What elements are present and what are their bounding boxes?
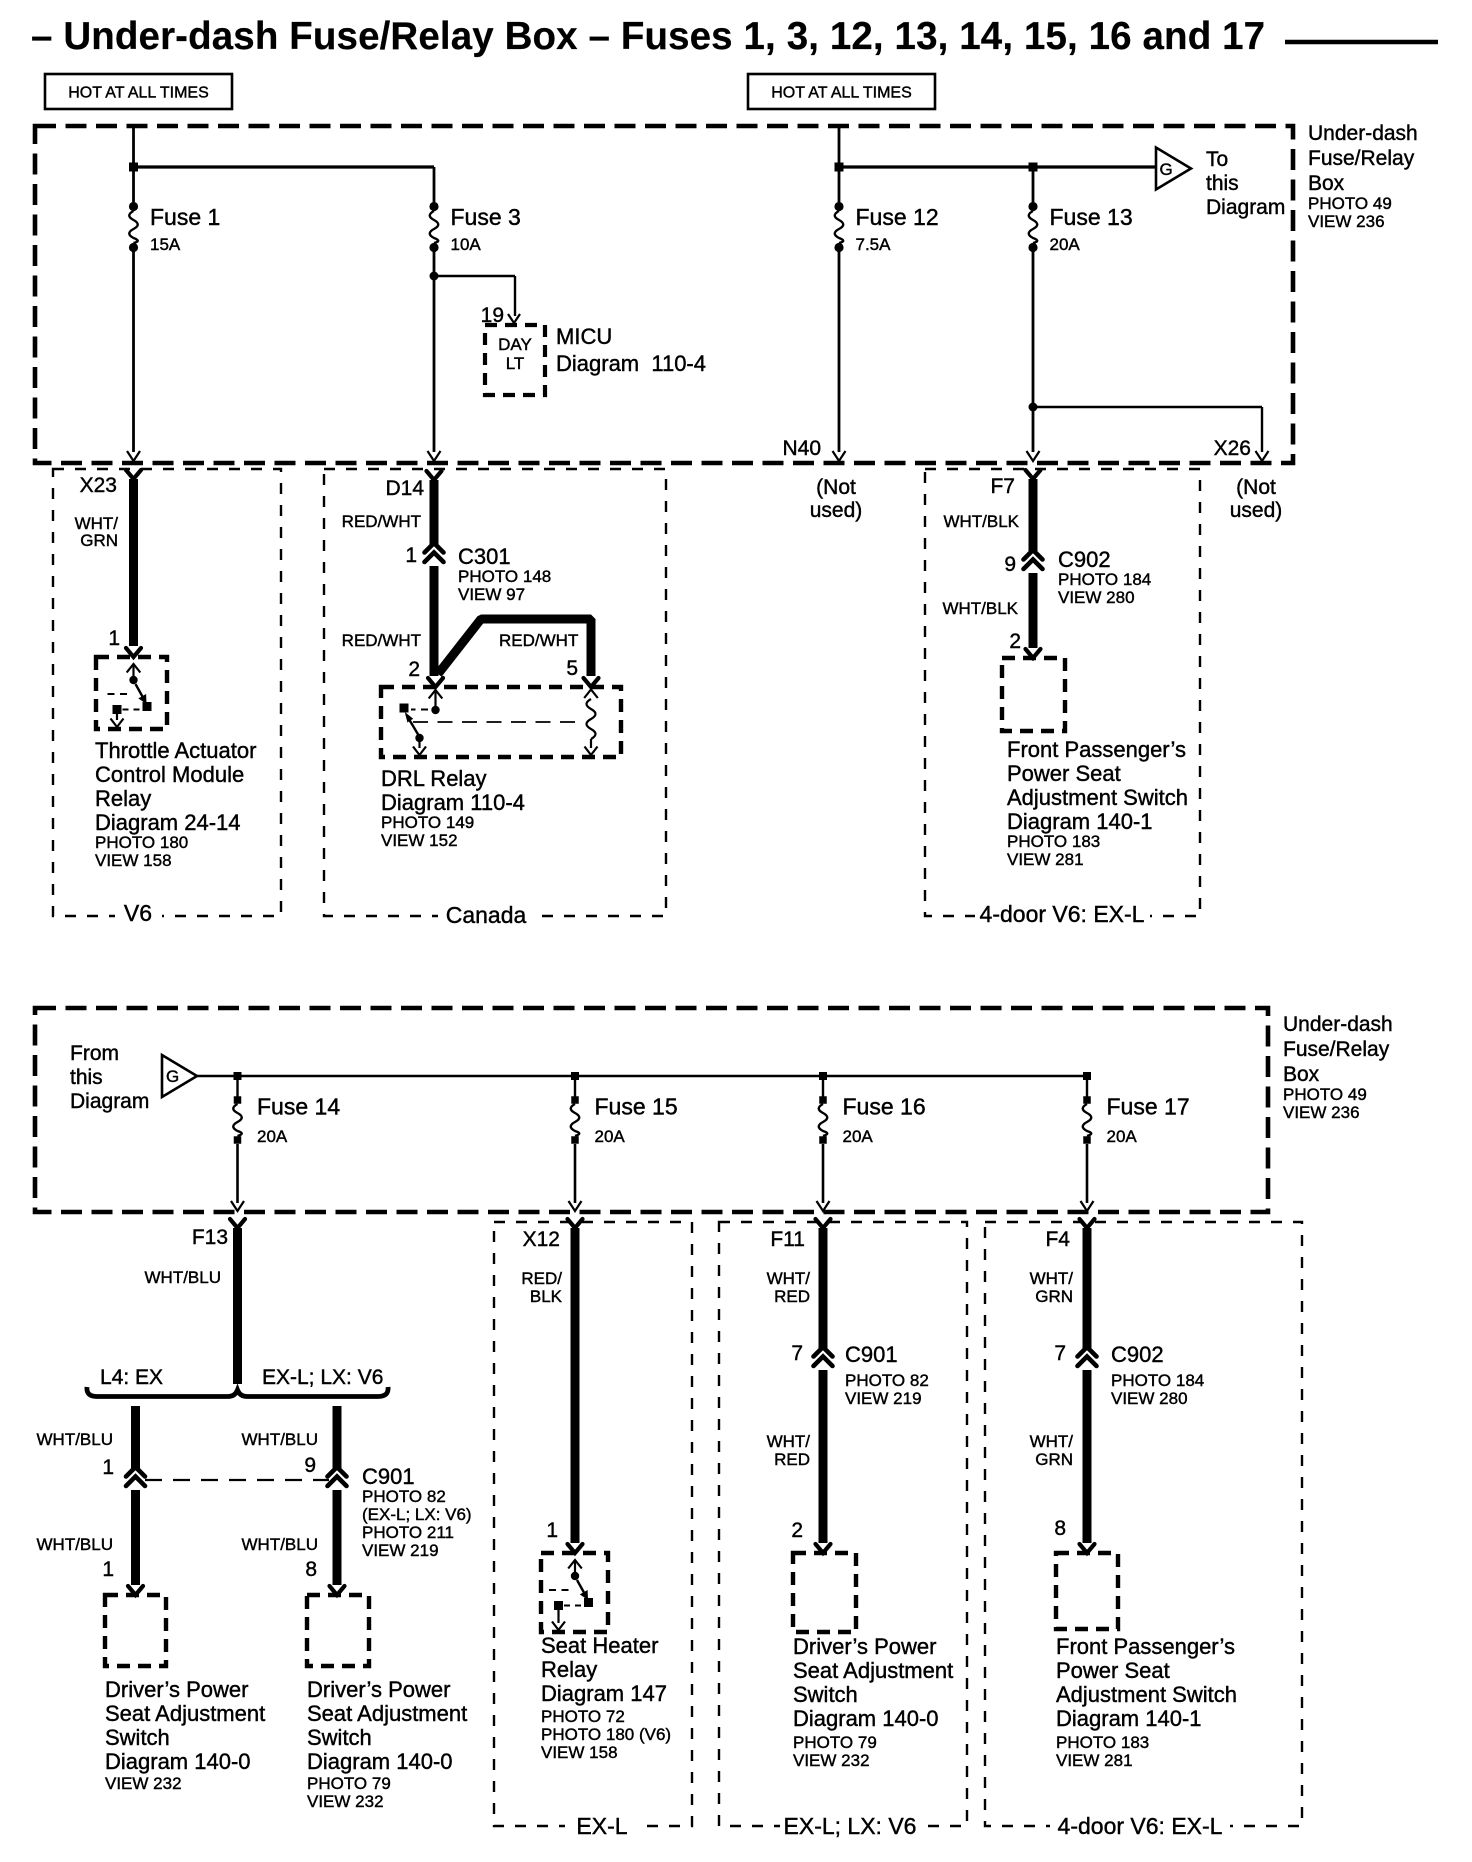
svg-text:1: 1 xyxy=(405,544,417,567)
svg-text:GRN: GRN xyxy=(80,531,118,550)
pin 5 connector at DRL relay xyxy=(584,678,599,687)
splice bus bar with variant split xyxy=(87,1387,388,1397)
G arrow from this diagram (bottom) xyxy=(162,1055,197,1097)
svg-text:Under-dash: Under-dash xyxy=(1283,1013,1393,1036)
wire WHT/BLU from F13 to splice (thick) xyxy=(233,1228,242,1384)
svg-text:(Not: (Not xyxy=(1236,476,1276,499)
connector C901 right inline chevrons xyxy=(328,1467,347,1477)
wire WHT/RED from C901 to driver switch pin 2 (thick) xyxy=(819,1370,828,1543)
variant label EX-L; LX: V6 xyxy=(780,1818,920,1834)
fuse F17 (Fuse 17) xyxy=(1083,1096,1091,1104)
wire: Fuse 17 output to connector xyxy=(1086,1144,1089,1203)
svg-text:PHOTO 149: PHOTO 149 xyxy=(381,813,474,832)
svg-text:PHOTO 148: PHOTO 148 xyxy=(458,567,551,586)
junction at Fuse 12 feed xyxy=(835,163,844,172)
wire: Fuse 16 output to connector xyxy=(822,1144,825,1203)
wire: Fuse 14 output to connector xyxy=(236,1144,239,1203)
svg-text:From: From xyxy=(70,1042,119,1065)
wire WHT/GRN from C902 to switch pin 8 (thick) xyxy=(1083,1370,1092,1543)
wire RED/WHT from C301 to DRL relay pin 2 (thick) xyxy=(430,566,439,676)
svg-text:LT: LT xyxy=(506,354,525,373)
svg-text:20A: 20A xyxy=(1050,235,1081,254)
variant label 4-door V6: EX-L (bottom) xyxy=(1050,1818,1230,1834)
MICU DAY LT dashed box xyxy=(485,325,545,395)
DRL relay contact symbol xyxy=(429,690,443,699)
svg-text:Diagram: Diagram xyxy=(1206,196,1285,219)
svg-text:WHT/: WHT/ xyxy=(767,1432,811,1451)
svg-text:10A: 10A xyxy=(451,235,482,254)
svg-text:2: 2 xyxy=(408,658,420,681)
svg-text:F11: F11 xyxy=(770,1228,805,1251)
pin 1 connector at throttle relay xyxy=(126,648,141,657)
driver's power seat adjustment switch box (right) xyxy=(307,1595,369,1666)
svg-text:WHT/BLU: WHT/BLU xyxy=(37,1430,114,1449)
wire: Fuse 3 to connector D14 xyxy=(433,252,436,452)
svg-text:Driver’s Power: Driver’s Power xyxy=(105,1677,248,1702)
svg-text:Fuse 12: Fuse 12 xyxy=(856,204,939,230)
svg-text:EX-L; LX: V6: EX-L; LX: V6 xyxy=(784,1813,917,1839)
svg-text:Driver’s Power: Driver’s Power xyxy=(793,1634,936,1659)
svg-text:(Not: (Not xyxy=(816,476,856,499)
svg-text:Seat Heater: Seat Heater xyxy=(541,1633,658,1658)
svg-text:1: 1 xyxy=(108,627,120,650)
svg-text:L4: EX: L4: EX xyxy=(100,1366,163,1389)
svg-text:VIEW 219: VIEW 219 xyxy=(845,1389,922,1408)
fuse F12 (Fuse 12) xyxy=(834,202,843,211)
svg-text:Diagram 140-1: Diagram 140-1 xyxy=(1056,1706,1202,1731)
connector C901 left inline chevrons xyxy=(126,1467,145,1477)
svg-text:7: 7 xyxy=(791,1342,803,1365)
svg-text:Power Seat: Power Seat xyxy=(1007,761,1121,786)
svg-text:1: 1 xyxy=(102,1558,114,1581)
svg-text:F13: F13 xyxy=(192,1226,228,1249)
svg-text:5: 5 xyxy=(566,657,578,680)
svg-text:Adjustment Switch: Adjustment Switch xyxy=(1056,1682,1237,1707)
title rule line xyxy=(1285,40,1438,45)
svg-text:DAY: DAY xyxy=(498,335,532,354)
wire: battery feed to Fuse 1 xyxy=(132,128,135,202)
variant box V6 (dashed) xyxy=(53,469,281,916)
svg-text:C301: C301 xyxy=(458,544,511,569)
svg-text:PHOTO 82: PHOTO 82 xyxy=(845,1371,929,1390)
svg-text:VIEW 281: VIEW 281 xyxy=(1056,1751,1133,1770)
DRL relay dashed box xyxy=(381,687,621,757)
variant box Canada (dashed) xyxy=(324,469,666,916)
svg-text:MICU: MICU xyxy=(556,324,612,349)
svg-text:15A: 15A xyxy=(150,235,181,254)
wire WHT/BLK from F7 to C902 (thick) xyxy=(1029,479,1038,551)
svg-text:Diagram 140-1: Diagram 140-1 xyxy=(1007,809,1153,834)
junction at Fuse 16 feed xyxy=(819,1072,827,1080)
svg-text:VIEW 232: VIEW 232 xyxy=(105,1774,182,1793)
front passenger power seat adjustment switch dashed box xyxy=(1002,658,1065,731)
seat heater relay dashed box xyxy=(541,1553,608,1632)
wire: branch to MICU daytime lights xyxy=(434,275,515,277)
under-dash fuse/relay box (top) dashed enclosure xyxy=(35,126,1293,463)
connector F11 (female half) xyxy=(816,1219,831,1228)
svg-text:RED/WHT: RED/WHT xyxy=(499,631,578,650)
svg-text:VIEW 97: VIEW 97 xyxy=(458,585,525,604)
svg-text:PHOTO 180 (V6): PHOTO 180 (V6) xyxy=(541,1725,671,1744)
svg-text:WHT/BLU: WHT/BLU xyxy=(242,1430,319,1449)
svg-text:Under-dash: Under-dash xyxy=(1308,122,1418,145)
svg-text:F7: F7 xyxy=(990,475,1015,498)
svg-text:PHOTO 79: PHOTO 79 xyxy=(793,1733,877,1752)
svg-text:Diagram 110-4: Diagram 110-4 xyxy=(381,790,525,815)
variant box EX-L; LX: V6 (dashed) xyxy=(719,1222,967,1826)
wire RED/BLK from X12 to seat heater relay (thick) xyxy=(571,1228,580,1543)
svg-text:WHT/BLK: WHT/BLK xyxy=(942,599,1018,618)
fuse F13A (Fuse 13) xyxy=(1028,202,1037,211)
svg-text:X12: X12 xyxy=(523,1228,560,1251)
svg-text:WHT/BLU: WHT/BLU xyxy=(37,1535,114,1554)
svg-text:VIEW 232: VIEW 232 xyxy=(307,1792,384,1811)
svg-text:WHT/: WHT/ xyxy=(1030,1432,1074,1451)
svg-text:20A: 20A xyxy=(843,1127,874,1146)
connector F4 (female half) xyxy=(1080,1219,1095,1228)
svg-text:PHOTO 79: PHOTO 79 xyxy=(307,1774,391,1793)
svg-text:DRL Relay: DRL Relay xyxy=(381,766,487,791)
svg-text:Diagram 24-14: Diagram 24-14 xyxy=(95,810,241,835)
connector C901 link (dashed) xyxy=(145,1479,329,1481)
pin 2 connector at DRL relay xyxy=(428,678,443,687)
wire: branch to X26 xyxy=(1033,406,1262,408)
svg-text:2: 2 xyxy=(1009,630,1021,653)
junction at Fuse 14 feed xyxy=(234,1072,242,1080)
svg-text:7.5A: 7.5A xyxy=(856,235,892,254)
pin 1 connector at driver switch left xyxy=(128,1586,143,1595)
svg-text:Box: Box xyxy=(1283,1063,1320,1086)
svg-text:Seat Adjustment: Seat Adjustment xyxy=(105,1701,265,1726)
fuse F14 (Fuse 14) xyxy=(234,1096,242,1104)
svg-text:HOT AT ALL TIMES: HOT AT ALL TIMES xyxy=(68,85,209,102)
svg-text:C902: C902 xyxy=(1111,1342,1164,1367)
svg-text:Seat Adjustment: Seat Adjustment xyxy=(793,1658,953,1683)
svg-text:8: 8 xyxy=(1054,1517,1066,1540)
svg-text:Switch: Switch xyxy=(307,1725,372,1750)
svg-text:Switch: Switch xyxy=(793,1682,858,1707)
wire: bus from Fuse 12 to G arrow xyxy=(839,165,1156,168)
junction at Fuse 13 feed xyxy=(1029,163,1038,172)
svg-text:Box: Box xyxy=(1308,172,1345,195)
connector C902 inline chevrons xyxy=(1024,550,1043,560)
svg-text:PHOTO 184: PHOTO 184 xyxy=(1058,570,1151,589)
pin 2 connector at driver switch xyxy=(816,1544,831,1553)
svg-text:PHOTO 180: PHOTO 180 xyxy=(95,833,188,852)
DRL relay mechanical link (dashed) xyxy=(413,721,576,723)
wire WHT/BLU left to driver switch pin 1 (thick) xyxy=(131,1490,140,1585)
junction at Fuse 17 feed xyxy=(1083,1072,1091,1080)
svg-text:Fuse/Relay: Fuse/Relay xyxy=(1308,147,1415,170)
connector X23 (female half) xyxy=(126,470,141,479)
svg-text:Throttle Actuator: Throttle Actuator xyxy=(95,738,256,763)
wire WHT/RED from F11 to C901 pin 7 (thick) xyxy=(819,1228,828,1348)
wire RED/WHT from D14 to C301 (thick) xyxy=(430,480,439,545)
wire RED/WHT branch to DRL relay pin 5 (thick) xyxy=(438,619,591,676)
svg-text:Front Passenger’s: Front Passenger’s xyxy=(1056,1634,1235,1659)
svg-text:WHT/BLU: WHT/BLU xyxy=(242,1535,319,1554)
pin 8 connector at front passenger switch xyxy=(1080,1544,1095,1553)
svg-text:used): used) xyxy=(810,499,863,522)
svg-text:X23: X23 xyxy=(80,474,117,497)
svg-text:Fuse 15: Fuse 15 xyxy=(595,1094,678,1120)
svg-text:WHT/BLU: WHT/BLU xyxy=(145,1268,222,1287)
svg-text:Diagram: Diagram xyxy=(70,1090,149,1113)
svg-text:Seat Adjustment: Seat Adjustment xyxy=(307,1701,467,1726)
svg-text:9: 9 xyxy=(1004,553,1016,576)
connector C902 pin 7 inline chevrons xyxy=(1078,1347,1097,1357)
svg-text:G: G xyxy=(1160,160,1173,179)
svg-text:Fuse 1: Fuse 1 xyxy=(150,204,220,230)
wire: battery feed to Fuse 12 xyxy=(838,128,841,202)
svg-text:RED: RED xyxy=(774,1287,810,1306)
svg-text:Fuse 13: Fuse 13 xyxy=(1050,204,1133,230)
svg-text:20A: 20A xyxy=(595,1127,626,1146)
svg-text:VIEW 236: VIEW 236 xyxy=(1283,1103,1360,1122)
throttle actuator control module relay dashed box xyxy=(96,657,167,729)
wire WHT/BLU right branch to C901 pin 9 (thick) xyxy=(333,1406,342,1468)
wire: bus from Fuse 1 junction to Fuse 3 xyxy=(134,165,435,168)
variant box 4-door V6: EX-L (dashed, top section) xyxy=(925,469,1200,916)
svg-text:VIEW 158: VIEW 158 xyxy=(95,851,172,870)
under-dash fuse/relay box (bottom) dashed enclosure xyxy=(35,1008,1268,1212)
svg-text:PHOTO 184: PHOTO 184 xyxy=(1111,1371,1204,1390)
svg-text:WHT/BLK: WHT/BLK xyxy=(943,512,1019,531)
svg-text:Control Module: Control Module xyxy=(95,762,244,787)
svg-text:RED: RED xyxy=(774,1450,810,1469)
svg-text:G: G xyxy=(166,1067,179,1086)
wire: bus from G arrow across fuses 14-17 xyxy=(197,1075,1087,1077)
connector F13 (female half) xyxy=(230,1219,245,1228)
variant label EX-L xyxy=(565,1818,640,1834)
svg-text:Fuse 16: Fuse 16 xyxy=(843,1094,926,1120)
svg-text:RED/WHT: RED/WHT xyxy=(342,512,421,531)
svg-text:D14: D14 xyxy=(385,477,424,500)
relay contact symbol (seat heater relay) xyxy=(574,1561,576,1576)
svg-text:V6: V6 xyxy=(124,900,152,926)
svg-text:2: 2 xyxy=(791,1519,803,1542)
svg-text:9: 9 xyxy=(304,1454,316,1477)
svg-text:1: 1 xyxy=(546,1519,558,1542)
svg-text:Front Passenger’s: Front Passenger’s xyxy=(1007,737,1186,762)
driver's power seat adjustment switch box (F11) xyxy=(793,1553,856,1632)
label HOT AT ALL TIMES (left) xyxy=(45,74,232,109)
svg-text:PHOTO 49: PHOTO 49 xyxy=(1308,194,1392,213)
svg-text:WHT/: WHT/ xyxy=(767,1269,811,1288)
svg-text:20A: 20A xyxy=(257,1127,288,1146)
svg-text:VIEW 232: VIEW 232 xyxy=(793,1751,870,1770)
variant box 4-door V6: EX-L (dashed, bottom section) xyxy=(985,1222,1302,1826)
variant label V6 xyxy=(115,906,162,922)
svg-text:Relay: Relay xyxy=(95,786,151,811)
svg-text:PHOTO 211: PHOTO 211 xyxy=(362,1523,454,1542)
svg-text:C901: C901 xyxy=(362,1464,415,1489)
svg-text:Fuse/Relay: Fuse/Relay xyxy=(1283,1038,1390,1061)
svg-text:EX-L; LX: V6: EX-L; LX: V6 xyxy=(262,1366,383,1389)
svg-text:Adjustment Switch: Adjustment Switch xyxy=(1007,785,1188,810)
svg-text:To: To xyxy=(1206,148,1228,171)
variant label 4-door V6: EX-L (top section) xyxy=(975,906,1150,922)
front passenger power seat adjustment switch box (F4) xyxy=(1056,1553,1118,1629)
svg-text:F4: F4 xyxy=(1045,1228,1070,1251)
svg-text:RED/: RED/ xyxy=(521,1269,562,1288)
svg-text:EX-L: EX-L xyxy=(576,1813,627,1839)
svg-text:VIEW 236: VIEW 236 xyxy=(1308,212,1385,231)
G arrow to this diagram (top) xyxy=(1156,148,1191,190)
svg-text:used): used) xyxy=(1230,499,1283,522)
label HOT AT ALL TIMES (right) xyxy=(748,74,935,109)
fuse F1 (Fuse 1) xyxy=(129,202,138,211)
svg-text:HOT AT ALL TIMES: HOT AT ALL TIMES xyxy=(771,85,912,102)
svg-text:7: 7 xyxy=(1054,1342,1066,1365)
fuse F3 (Fuse 3) xyxy=(429,202,438,211)
svg-text:WHT/: WHT/ xyxy=(1030,1269,1074,1288)
wire WHT/GRN from X23 to relay pin 1 (thick) xyxy=(129,479,138,646)
svg-text:VIEW 281: VIEW 281 xyxy=(1007,850,1084,869)
junction: Fuse 13 to X26 branch xyxy=(1029,403,1038,412)
wire WHT/BLU right to driver switch pin 8 (thick) xyxy=(333,1490,342,1585)
junction: Fuse 3 output to MICU branch xyxy=(430,272,439,281)
fuse F16 (Fuse 16) xyxy=(819,1096,827,1104)
svg-text:Canada: Canada xyxy=(446,902,527,928)
svg-text:PHOTO 72: PHOTO 72 xyxy=(541,1707,625,1726)
connector D14 (female half) xyxy=(427,471,442,480)
connector C301 inline chevrons xyxy=(425,543,444,553)
svg-text:1: 1 xyxy=(102,1456,114,1479)
svg-text:VIEW 280: VIEW 280 xyxy=(1111,1389,1188,1408)
svg-text:VIEW 280: VIEW 280 xyxy=(1058,588,1135,607)
driver's power seat adjustment switch box (left) xyxy=(105,1595,166,1666)
svg-text:RED/WHT: RED/WHT xyxy=(342,631,421,650)
svg-text:VIEW 219: VIEW 219 xyxy=(362,1541,439,1560)
svg-text:Diagram 147: Diagram 147 xyxy=(541,1681,667,1706)
svg-text:Diagram 110-4: Diagram 110-4 xyxy=(556,351,706,376)
svg-text:Diagram 140-0: Diagram 140-0 xyxy=(307,1749,453,1774)
svg-text:Switch: Switch xyxy=(105,1725,170,1750)
svg-text:4-door V6: EX-L: 4-door V6: EX-L xyxy=(1058,1813,1223,1839)
svg-text:this: this xyxy=(70,1066,103,1089)
junction at Fuse 15 feed xyxy=(571,1072,579,1080)
junction at Fuse 1 feed xyxy=(129,163,138,172)
svg-text:GRN: GRN xyxy=(1035,1450,1073,1469)
svg-text:Driver’s Power: Driver’s Power xyxy=(307,1677,450,1702)
svg-text:Fuse 17: Fuse 17 xyxy=(1107,1094,1190,1120)
svg-text:PHOTO 49: PHOTO 49 xyxy=(1283,1085,1367,1104)
pin 1 connector at seat heater relay xyxy=(568,1544,583,1553)
svg-text:BLK: BLK xyxy=(530,1287,563,1306)
pin 8 connector at driver switch right xyxy=(330,1586,345,1595)
DRL relay coil xyxy=(584,690,598,699)
svg-text:C901: C901 xyxy=(845,1342,898,1367)
svg-text:VIEW 152: VIEW 152 xyxy=(381,831,458,850)
svg-text:N40: N40 xyxy=(782,437,821,460)
svg-text:Diagram 140-0: Diagram 140-0 xyxy=(105,1749,251,1774)
wire: Fuse 15 output to connector xyxy=(574,1144,577,1203)
svg-text:C902: C902 xyxy=(1058,547,1111,572)
relay contact symbol (throttle relay) xyxy=(132,665,134,680)
svg-text:PHOTO 82: PHOTO 82 xyxy=(362,1487,446,1506)
svg-text:PHOTO 183: PHOTO 183 xyxy=(1007,832,1100,851)
connector F7 (female half) xyxy=(1026,470,1041,479)
svg-text:(EX-L; LX: V6): (EX-L; LX: V6) xyxy=(362,1505,472,1524)
svg-text:Fuse 3: Fuse 3 xyxy=(451,204,521,230)
svg-text:this: this xyxy=(1206,172,1239,195)
svg-text:VIEW 158: VIEW 158 xyxy=(541,1743,618,1762)
svg-text:Diagram 140-0: Diagram 140-0 xyxy=(793,1706,939,1731)
svg-text:8: 8 xyxy=(305,1558,317,1581)
svg-text:PHOTO 183: PHOTO 183 xyxy=(1056,1733,1149,1752)
fuse F15 (Fuse 15) xyxy=(571,1096,579,1104)
variant box EX-L (dashed) xyxy=(494,1222,692,1826)
svg-text:X26: X26 xyxy=(1214,437,1251,460)
svg-text:4-door V6: EX-L: 4-door V6: EX-L xyxy=(980,901,1145,927)
svg-text:Fuse 14: Fuse 14 xyxy=(257,1094,340,1120)
svg-text:Relay: Relay xyxy=(541,1657,597,1682)
wire: Fuse 13 down to F7 xyxy=(1032,252,1035,452)
wire WHT/BLK from C902 to switch pin 2 (thick) xyxy=(1029,573,1038,648)
svg-text:– Under-dash Fuse/Relay Box –: – Under-dash Fuse/Relay Box – Fuses 1, 3… xyxy=(31,15,1265,58)
connector X12 (female half) xyxy=(568,1219,583,1228)
wire WHT/BLU left branch to C901 pin 1 (thick) xyxy=(131,1406,140,1468)
pin 2 connector at front passenger switch xyxy=(1026,649,1041,658)
wire: Fuse 1 to connector X23 xyxy=(132,252,135,452)
wire: Fuse 12 to N40 xyxy=(838,252,841,452)
variant label Canada xyxy=(438,906,534,922)
svg-text:Power Seat: Power Seat xyxy=(1056,1658,1170,1683)
svg-text:20A: 20A xyxy=(1107,1127,1138,1146)
wire WHT/GRN from F4 to C902 pin 7 (thick) xyxy=(1083,1228,1092,1348)
svg-text:GRN: GRN xyxy=(1035,1287,1073,1306)
connector C901 pin 7 inline chevrons xyxy=(814,1347,833,1357)
